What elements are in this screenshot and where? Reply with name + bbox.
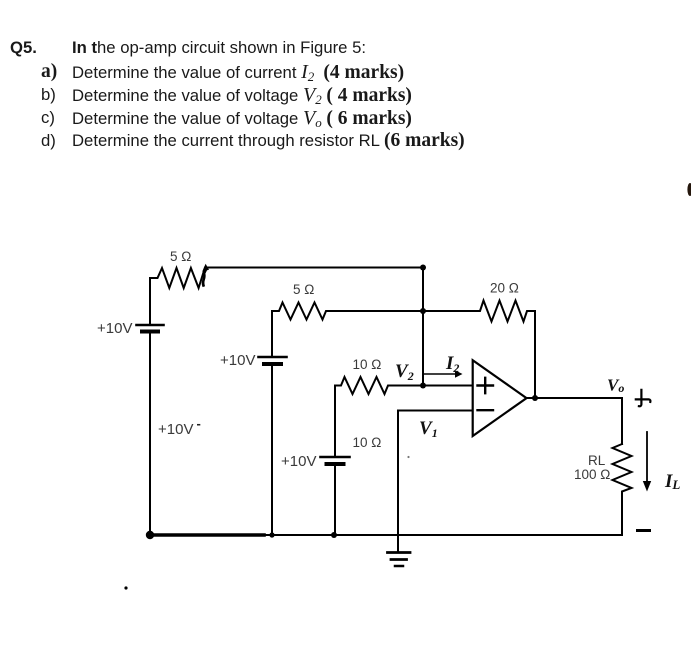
svg-text:RL: RL [588, 453, 606, 468]
svg-text:10 Ω: 10 Ω [353, 357, 382, 372]
svg-text:V2: V2 [395, 361, 414, 383]
svg-text:5 Ω: 5 Ω [170, 249, 191, 264]
svg-text:+10V: +10V [281, 453, 316, 470]
svg-text:Vo: Vo [607, 376, 624, 396]
svg-text:+10V: +10V [220, 352, 255, 369]
svg-text:I2: I2 [445, 353, 459, 375]
svg-text:+10V: +10V [97, 320, 132, 337]
svg-text:10 Ω: 10 Ω [353, 435, 382, 450]
svg-text:V1: V1 [419, 418, 438, 440]
svg-text:20 Ω: 20 Ω [490, 281, 519, 296]
svg-text:-: - [197, 416, 201, 431]
svg-text:+10V: +10V [158, 421, 193, 438]
svg-text:5 Ω: 5 Ω [293, 282, 314, 297]
svg-text:100 Ω: 100 Ω [574, 467, 610, 482]
svg-text:IL: IL [664, 471, 680, 492]
